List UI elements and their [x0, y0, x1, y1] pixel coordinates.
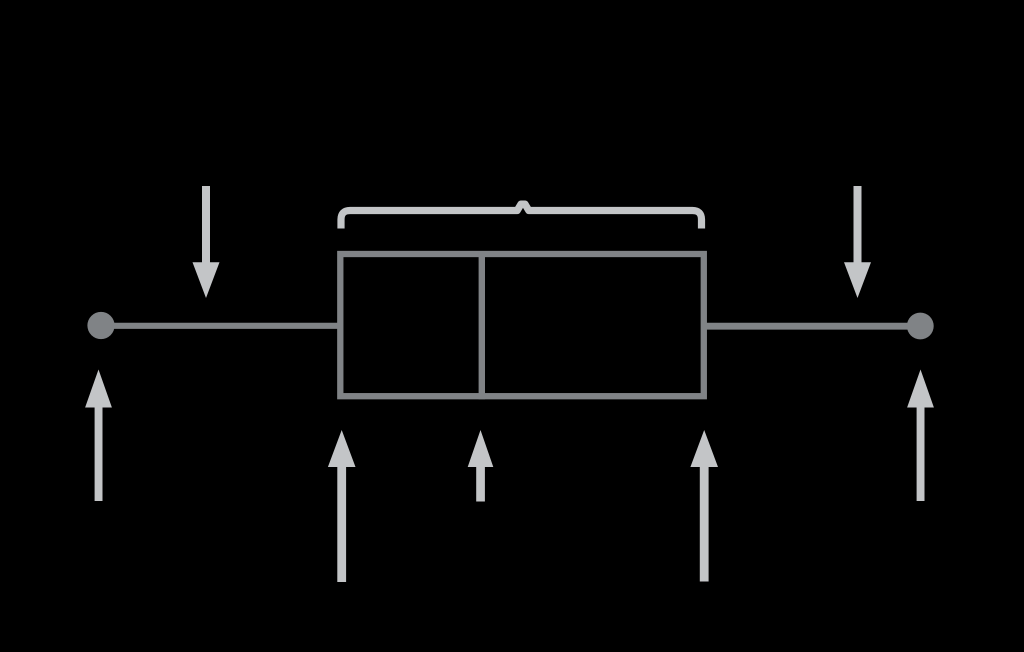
maximum endpoint dot: [907, 313, 934, 340]
curly brace over the box (IQR): [341, 204, 702, 228]
left whisker: [101, 323, 340, 329]
median line: [479, 251, 485, 399]
up arrow pointing to maximum dot: [907, 370, 934, 502]
box (interquartile range): [340, 254, 704, 396]
up arrow pointing to minimum dot: [85, 370, 112, 502]
down arrow pointing to left whisker: [193, 186, 220, 298]
right whisker: [704, 323, 920, 330]
up arrow pointing to third quartile (box right edge): [690, 430, 718, 582]
up arrow pointing to median: [468, 430, 494, 502]
up arrow pointing to first quartile (box left edge): [328, 430, 356, 582]
down arrow pointing to right whisker: [844, 186, 871, 298]
minimum endpoint dot: [87, 312, 114, 339]
